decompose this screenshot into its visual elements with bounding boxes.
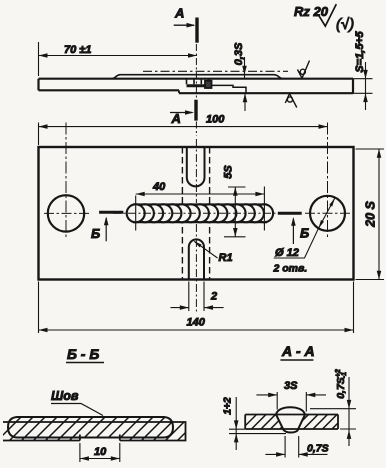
plate bottom edge right part [179,92,353,94]
svg-text:140: 140 [187,317,206,329]
dimension 0,7S+2-1 extension lines [310,409,356,429]
right hole centerlines [305,212,351,214]
dimension 0,7S bottom [265,453,327,455]
А-А hatching left [238,411,298,433]
lower sheet visible edge lines [212,85,247,93]
svg-text:Б: Б [300,226,309,241]
dimension 0,7S+2-1 arrows [348,377,350,446]
left hole [48,195,84,231]
svg-text:10: 10 [94,446,107,458]
hole diameter callout leader [274,229,319,258]
plate corner extension lines down [39,282,354,334]
roughness symbol on bottom surface [285,94,297,108]
section line A bottom mark [194,100,197,121]
weld axis dash-dot horizontal [113,212,278,214]
plate bottom edge left part [39,89,180,91]
section Б-Б title [66,346,104,363]
roughness symbol on top surface [298,61,310,79]
dimension 3S [256,394,326,396]
dimension 0,3S upper arrow [244,57,246,79]
svg-text:100: 100 [206,114,225,126]
dimension 10 [80,458,120,460]
svg-text:1÷2: 1÷2 [221,397,233,415]
svg-text:Ø 12: Ø 12 [275,247,299,259]
dimension 3S extension lines [277,392,306,412]
section axis dash-dot vertical [195,44,197,136]
А-А hatching right [290,411,360,433]
thickness S dimension extension lines [353,79,373,94]
А-А weld nugget [276,407,305,432]
dimension 1÷2 arrows [235,397,237,450]
label R1 leader [195,242,218,259]
weld axis dash-dot line [143,70,288,72]
joint end block [205,81,212,88]
svg-text:20 S: 20 S [363,200,377,227]
svg-text:0,3S: 0,3S [233,42,245,65]
svg-text:А: А [174,6,184,21]
dimension 100 [39,126,328,128]
svg-text:Шов: Шов [51,389,79,403]
Rz check mark [319,4,337,26]
section Б-Б view [0,389,228,462]
section А-А view [221,369,359,457]
svg-text:40: 40 [152,181,166,193]
side view: welded specimen edge view [39,4,373,136]
svg-text:А: А [171,111,181,126]
Б-Б hatching [0,414,228,446]
dimension 20S [378,149,380,280]
svg-text:2 отв.: 2 отв. [273,263,308,275]
dimension 140 [39,329,354,331]
plate right edge [352,79,354,94]
svg-text:А - А: А - А [281,343,315,359]
left hole centerlines [44,212,90,214]
svg-text:5S: 5S [222,165,234,179]
plan view: plate 140x20S [39,114,385,334]
svg-text:(√): (√) [336,16,354,33]
plate left edge extension up [38,123,40,146]
svg-text:3S: 3S [284,380,298,392]
weld seam tangent lines [133,204,267,222]
dimension 0,3S lower arrow [244,93,246,111]
plate outline [39,147,354,280]
section А-А title [280,343,314,360]
dimension 10 extension lines [80,443,120,462]
svg-text:0,7S+2-1: 0,7S+2-1 [335,369,348,399]
section mark Б right [278,212,302,215]
joint hanging boxes under top edge [187,79,209,85]
center axis below plate [195,139,197,313]
Б-Б plate band outline [3,422,186,441]
right hole [310,196,345,231]
svg-text:R1: R1 [219,252,233,264]
dimension 2 [171,307,224,309]
slot width extension lines [189,282,204,312]
weld seam scallops [127,204,273,222]
section line A top mark [195,18,198,43]
svg-text:Б: Б [91,226,100,241]
dimension 0,7S bottom extension lines [285,436,299,458]
plate right corner extension lines [356,149,385,280]
svg-text:Б - Б: Б - Б [67,346,99,362]
svg-text:0,7S: 0,7S [307,443,329,455]
hidden lap edge dashed right [209,147,211,280]
svg-text:70 ±1: 70 ±1 [64,44,91,56]
svg-text:S=1,5÷5: S=1,5÷5 [354,31,366,73]
Б-Б notch verticals [80,435,120,441]
weld end extension verticals [136,187,265,231]
section mark Б left [99,211,123,214]
dimension 40 [136,193,265,195]
top slot U [187,147,205,186]
weld bead top strip [112,75,283,79]
svg-text:Rz 20: Rz 20 [294,4,329,19]
thickness S arrows [365,62,367,110]
dimension 1÷2 extension lines [229,429,286,433]
Б-Б weld capsule outline [8,417,173,438]
dimension 5S extension lines [224,187,246,237]
hidden lap edge dashed left [181,147,183,280]
plate left edge [37,79,39,91]
diameter arrow inside hole [318,198,335,229]
dimension 70±1 line with arrows [39,42,198,76]
svg-text:2: 2 [210,291,217,303]
dimension 5S line with arrows [234,187,236,237]
plate top edge [39,78,354,80]
А-А plate outline [245,415,338,430]
bottom step at joint [178,90,180,93]
bottom slot U [189,239,204,279]
